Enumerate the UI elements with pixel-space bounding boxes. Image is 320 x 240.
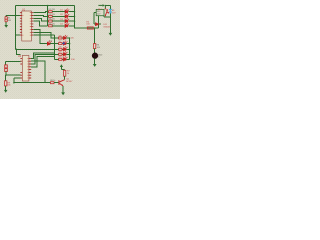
junction common row3: [74, 20, 76, 22]
svg-text:10k: 10k: [7, 85, 10, 87]
wire U1 pin to LED row 4: [33, 21, 47, 26]
svg-text:R3 220: R3 220: [48, 19, 55, 21]
LED D7: [64, 41, 68, 45]
wire left vertical: [15, 6, 17, 50]
U1 pin numbers: [22, 13, 31, 35]
crystal X1: [5, 17, 7, 22]
wires IC1 right pins to top LED rows: [33, 12, 54, 44]
wire mid row4: [55, 53, 70, 55]
wire buzzer feed: [94, 28, 96, 44]
wire mid row5: [55, 58, 70, 60]
wire long horizontal to LED bus: [16, 48, 55, 50]
diode D5 horizontal: [48, 41, 52, 45]
wire branch to IC1 lower-left pin: [16, 34, 21, 36]
wire mid row2: [55, 43, 70, 45]
junction common row2: [74, 16, 76, 18]
wire IC2 left pin to base rail: [14, 78, 21, 83]
background grid: [0, 0, 120, 99]
wire row3: [52, 20, 74, 22]
junction bus row3: [47, 20, 49, 22]
junction bus row2: [47, 16, 49, 18]
U1 left pins: [20, 13, 33, 35]
power symbol for Q1: [60, 64, 63, 67]
wire ground rail top: [16, 5, 75, 7]
top LED common line: [74, 6, 76, 26]
resistor R6 vertical: [94, 44, 96, 49]
IC U2: [18, 55, 31, 81]
ground symbol below R9: [4, 90, 8, 93]
wire row1: [52, 11, 74, 13]
wire coil left down: [94, 13, 96, 25]
buzzer BZ1: [92, 53, 98, 59]
svg-text:R8 1k: R8 1k: [50, 80, 55, 82]
resistor mid row5: [59, 58, 62, 60]
wire IC2 pin to X2: [6, 61, 21, 64]
junction bus top: [47, 5, 49, 7]
middle LED common: [69, 38, 71, 59]
top LED common to relay feed wire: [75, 26, 99, 28]
resistor mid row3: [59, 48, 62, 50]
wire rise to relay coil: [97, 16, 99, 28]
wire X1 bottom stub: [5, 22, 7, 25]
wire U1 pin to mid bus top: [33, 34, 54, 36]
diode D1: [96, 23, 99, 26]
wire base rail: [14, 82, 51, 84]
wire mid row1: [55, 37, 70, 39]
wire buzzer to ground: [94, 58, 96, 64]
resistor mid row2: [59, 43, 62, 45]
ground symbol below buzzer: [93, 64, 97, 67]
battery B1: [109, 9, 112, 13]
resistor R8 base: [51, 82, 55, 84]
wire battery bottom to coil: [104, 13, 110, 17]
wire junction to R9: [5, 74, 7, 76]
svg-text:R1 220: R1 220: [48, 9, 55, 11]
middle LED bus: [54, 35, 56, 59]
svg-text:BC547: BC547: [66, 81, 73, 83]
middle rows: [54, 35, 76, 61]
wire mid row3: [55, 48, 70, 50]
ground symbol below X1: [4, 25, 8, 28]
resistor R-top3: [49, 20, 53, 22]
junction bus row1: [47, 11, 49, 13]
wire branch to IC2 top-left: [16, 49, 20, 54]
wire U1 pin to LED row 1: [33, 12, 47, 13]
resistor R7: [64, 70, 66, 76]
top LED block bus: [47, 6, 49, 26]
wire battery to ground: [109, 17, 111, 33]
ground symbol below Q1: [61, 92, 65, 95]
resistor R5: [87, 27, 93, 29]
relay contact: [105, 8, 109, 16]
wire U1 pin to mid row 1: [33, 32, 54, 38]
wire relay top to battery: [105, 5, 110, 9]
svg-text:1k: 1k: [67, 73, 69, 75]
wire to IC1 pin row2: [6, 15, 20, 17]
relay RL1 coil: [96, 9, 104, 15]
ground symbol below battery: [109, 33, 113, 36]
LED D-top2: [65, 13, 69, 17]
transistor Q1: [59, 80, 65, 86]
power arrow to relay contact: [98, 4, 105, 8]
LED D10: [64, 56, 68, 60]
wire R6 to buzzer: [94, 49, 96, 53]
LED D-top1: [65, 9, 69, 14]
U1 right pins: [31, 13, 33, 35]
LED D6: [64, 35, 68, 39]
resistor R-top1: [49, 11, 53, 13]
junction common row1: [74, 11, 76, 13]
wire IC2 to Q1 base: [31, 61, 45, 82]
LED D9: [64, 51, 68, 55]
resistor R-top4: [49, 25, 53, 27]
resistor R9: [5, 81, 7, 86]
wire Q1 emitter to ground: [62, 86, 64, 93]
LED D-top4: [65, 23, 69, 28]
svg-text:1N4148: 1N4148: [103, 27, 111, 29]
resistor R-top2: [49, 15, 53, 17]
wire row4: [52, 25, 74, 27]
wire X2 to IC2: [6, 72, 21, 76]
wire U1 pin to LED row 2: [33, 15, 47, 18]
svg-text:4M: 4M: [8, 20, 11, 22]
component X2: [5, 65, 8, 72]
LED D-top3: [65, 18, 69, 23]
svg-text:R2 220: R2 220: [48, 14, 55, 16]
wire U1 pin to diode D5: [33, 30, 47, 44]
resistor mid row4: [59, 53, 62, 55]
wire U1 pin to LED row 3: [33, 18, 47, 21]
wires IC2 right risers: [31, 53, 54, 83]
LED D8: [64, 46, 68, 50]
wire R8 to Q1: [54, 82, 59, 84]
wire row2: [52, 15, 74, 17]
wire R9 to ground: [5, 86, 7, 90]
wire power to R7: [61, 67, 64, 70]
resistor mid row1: [59, 37, 62, 39]
junction dot W2/W3: [15, 15, 17, 17]
svg-text:R4 220: R4 220: [48, 23, 55, 25]
junction dot branch: [16, 49, 18, 51]
wire X1 top stub: [5, 16, 7, 17]
IC U1: [20, 8, 33, 41]
wire R7 to Q1 collector: [64, 76, 66, 80]
logic state indicator (blue): [63, 42, 65, 44]
